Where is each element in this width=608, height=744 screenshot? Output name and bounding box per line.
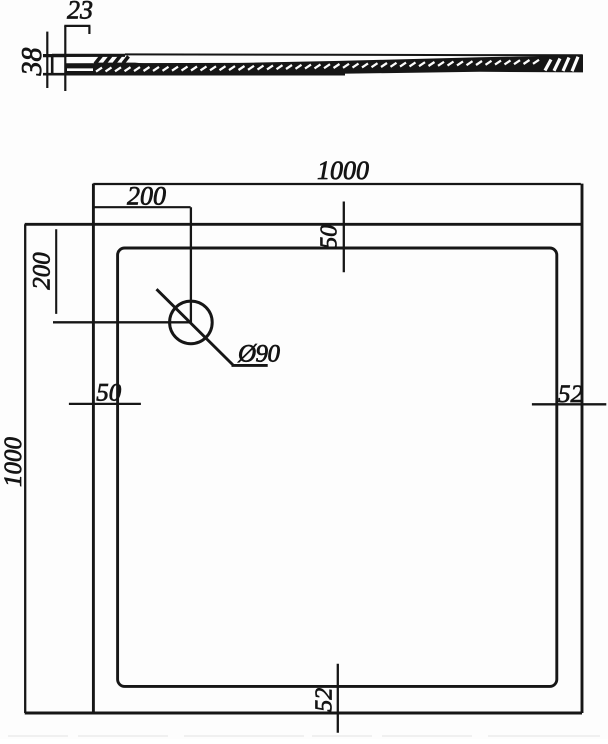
dim 38 extension line — [46, 32, 48, 88]
svg-text:23: 23 — [67, 0, 93, 25]
section right end large hatch — [545, 57, 578, 71]
svg-text:52: 52 — [558, 381, 583, 408]
svg-text:50: 50 — [96, 380, 122, 407]
bottom scan noise streak — [8, 735, 600, 737]
section left hatch wedge — [94, 63, 165, 67]
dim 50 top tick — [343, 202, 345, 273]
dim 200 top line — [93, 206, 190, 208]
svg-text:200: 200 — [127, 182, 166, 211]
section rim box left edge — [51, 54, 54, 75]
plan outer square right edge extended to dim line — [581, 184, 584, 713]
section profile material band — [66, 54, 583, 74]
section rim box bottom edge — [43, 73, 345, 76]
dim 23 extension left / rim inner edge — [64, 26, 66, 91]
dim 200 left line — [55, 229, 57, 314]
drain leader underline — [232, 364, 268, 367]
svg-text:1000: 1000 — [0, 437, 27, 488]
dim 1000 top line — [93, 183, 581, 185]
svg-text:1000: 1000 — [317, 156, 369, 185]
section left hatch patch (black strokes) — [95, 56, 129, 64]
dim 52 right tick — [532, 403, 606, 405]
svg-text:Ø90: Ø90 — [237, 341, 281, 368]
plan outer square top edge with left extension — [25, 223, 582, 226]
section band hatch white dashes — [96, 60, 539, 72]
svg-text:50: 50 — [317, 225, 343, 249]
drain vertical extension line — [190, 207, 192, 322]
svg-text:52: 52 — [312, 688, 338, 712]
plan outer square left edge extended to dim line — [92, 184, 95, 713]
dim 1000 left line — [24, 224, 26, 713]
section profile top surface line — [52, 54, 125, 57]
drain circle — [170, 301, 213, 344]
section left inner white sliver — [67, 68, 93, 71]
drain leader diagonal — [157, 289, 233, 365]
drain horizontal extension line — [53, 321, 191, 323]
plan inner square rounded — [118, 248, 557, 686]
dim 52 bottom tick — [337, 664, 339, 733]
svg-text:38: 38 — [17, 48, 48, 77]
dim 23 line — [64, 25, 90, 27]
svg-text:200: 200 — [29, 252, 56, 290]
dim 23 extension right stub — [88, 26, 90, 34]
plan outer square bottom edge with left extension — [25, 712, 582, 715]
section rim box top edge — [43, 54, 67, 57]
dim 50 left tick — [69, 403, 141, 405]
